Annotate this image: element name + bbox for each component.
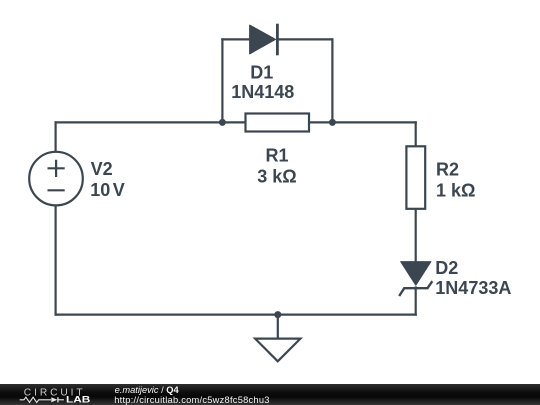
- svg-text:1N4733A: 1N4733A: [435, 278, 511, 298]
- wire: D2 cathode down to bottom rail: [415, 288, 417, 315]
- CircuitLab logo: [0, 384, 110, 405]
- svg-text:R2: R2: [436, 159, 459, 179]
- wire: R1 right terminal to right rail: [310, 121, 416, 123]
- svg-text:D1: D1: [250, 62, 273, 82]
- svg-text:10 V: 10 V: [90, 180, 125, 200]
- svg-text:LAB: LAB: [66, 394, 91, 404]
- junction node: right of R1: [329, 119, 336, 126]
- svg-text:R1: R1: [265, 146, 288, 166]
- footer url line: [114, 396, 270, 405]
- wire: R2 bottom to D2 anode: [415, 209, 417, 262]
- wire: D1 anode horizontal: [222, 38, 250, 40]
- resistor R2: [406, 146, 425, 209]
- svg-text:1 kΩ: 1 kΩ: [436, 181, 475, 201]
- label D2 value: [435, 258, 511, 298]
- wire: bottom horizontal rail: [56, 314, 416, 316]
- wire: V2 bottom terminal down to bottom rail: [54, 206, 56, 315]
- ground: [255, 339, 300, 362]
- label D1 value: [231, 62, 294, 102]
- wire: ground stub: [277, 315, 279, 339]
- voltage source V2: [29, 152, 83, 206]
- junction node: ground tap on bottom rail: [274, 311, 281, 318]
- label V2 value: [90, 159, 125, 200]
- footer bar: [0, 384, 540, 405]
- wire: V2 top terminal up to top-left corner: [54, 122, 56, 151]
- diode D1: [250, 24, 278, 56]
- wire: D1 branch left vertical riser: [221, 39, 223, 122]
- wire: top horizontal from left rail to R1 left terminal: [56, 121, 245, 123]
- resistor R1: [246, 114, 310, 132]
- wire: D1 cathode horizontal: [277, 38, 332, 40]
- zener diode D2: [399, 262, 432, 296]
- svg-text:3 kΩ: 3 kΩ: [257, 166, 296, 186]
- junction node: left of R1: [219, 119, 226, 126]
- wire: D1 branch right vertical drop: [331, 39, 333, 122]
- svg-text:V2: V2: [91, 159, 113, 179]
- wire: right rail down to R2 top: [415, 122, 417, 146]
- svg-text:D2: D2: [435, 258, 458, 278]
- svg-text:1N4148: 1N4148: [231, 82, 294, 102]
- footer credit line: [115, 386, 179, 396]
- label R1 value: [257, 146, 296, 187]
- label R2 value: [436, 159, 475, 200]
